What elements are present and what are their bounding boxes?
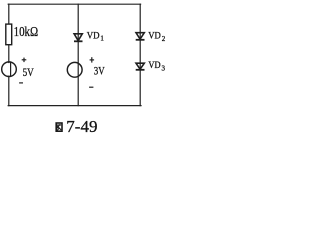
svg-text:3: 3: [162, 65, 166, 73]
wire: 5V source internal lead: [10, 62, 12, 76]
svg-text:VD: VD: [87, 32, 100, 42]
svg-text:7-49: 7-49: [66, 117, 97, 136]
svg-text:VD: VD: [148, 61, 160, 71]
wire: bottom horizontal bus: [8, 105, 141, 107]
voltage source 5V: [2, 58, 35, 83]
wire: middle branch vertical: [77, 4, 79, 105]
svg-text:5V: 5V: [23, 67, 35, 79]
wire: top horizontal bus: [8, 3, 140, 5]
diode VD1: [74, 32, 104, 43]
polarity marks + / − for 5V source: [19, 58, 26, 83]
resistor 10kΩ: [6, 24, 38, 45]
wire: left branch vertical, below 5V source: [8, 76, 10, 105]
svg-text:10kΩ: 10kΩ: [14, 25, 39, 40]
diode VD2: [136, 32, 166, 44]
wire: right branch vertical: [139, 4, 141, 105]
svg-text:2: 2: [162, 35, 166, 43]
diode VD3: [136, 61, 166, 72]
caption 图 glyph (drawn): [56, 123, 62, 131]
svg-text:1: 1: [100, 34, 104, 42]
wire: left branch vertical, above 5V source: [8, 4, 10, 62]
svg-text:VD: VD: [148, 32, 161, 42]
polarity marks + / − for 3V source: [89, 57, 94, 87]
svg-text:3V: 3V: [94, 65, 105, 77]
voltage source 3V: [67, 57, 105, 87]
